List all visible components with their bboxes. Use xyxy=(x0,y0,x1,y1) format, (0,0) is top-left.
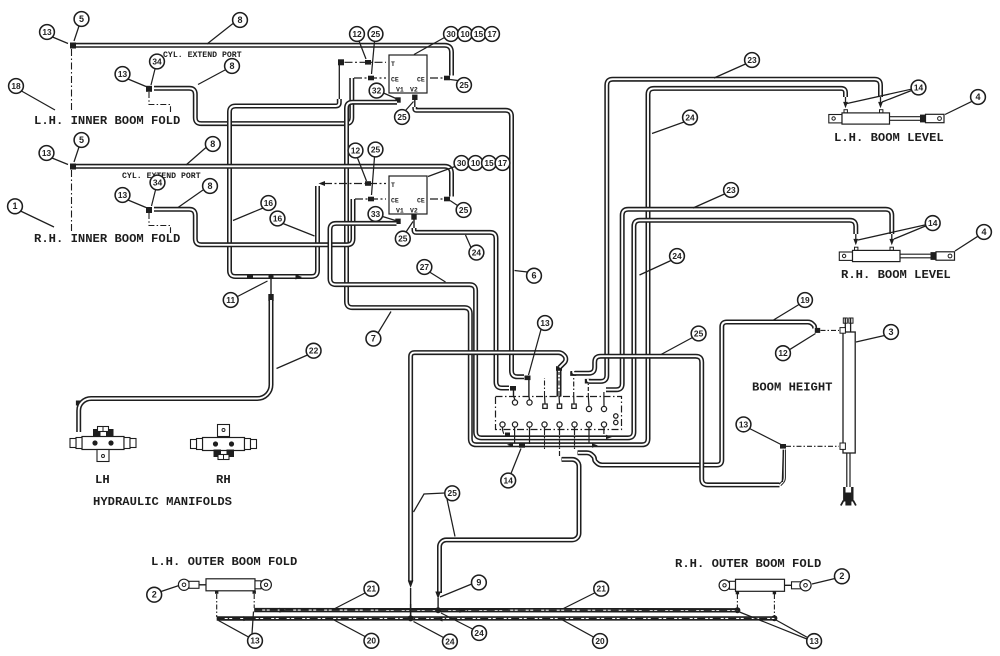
svg-text:25: 25 xyxy=(448,488,458,498)
stub line-6 to manifold port xyxy=(528,380,530,398)
fitting 11 below tee xyxy=(268,294,273,301)
stub port 514 bottom xyxy=(514,430,516,443)
hose 27 port lead xyxy=(855,234,857,241)
balloon 12 xyxy=(358,158,367,181)
connector port LH inner rod end xyxy=(70,43,76,49)
balloon 30 xyxy=(414,38,445,55)
dash-dot LH outer port 1 xyxy=(216,594,218,617)
svg-text:3: 3 xyxy=(888,327,893,337)
svg-text:CE: CE xyxy=(391,198,399,205)
fitting port 502 xyxy=(505,433,510,437)
balloon 24 xyxy=(414,622,444,638)
fitting on hose 22 at manifold xyxy=(76,401,82,406)
balloon 25 xyxy=(450,80,458,81)
svg-text:15: 15 xyxy=(484,158,494,168)
balloon 8 xyxy=(198,70,225,85)
balloon 8 xyxy=(178,190,203,208)
balloon 8 xyxy=(207,24,233,45)
svg-text:25: 25 xyxy=(371,29,381,39)
connector port RH inner rod end xyxy=(70,164,76,170)
balloon 3 xyxy=(856,336,885,343)
cylinder L.H. OUTER BOOM FOLD xyxy=(178,579,189,590)
balloon 13 xyxy=(776,620,808,638)
svg-text:R.H. INNER BOOM FOLD: R.H. INNER BOOM FOLD xyxy=(34,232,180,246)
dash-dot cyl extend port symbol LH xyxy=(149,92,171,112)
connector cyl extend port LH xyxy=(146,86,152,92)
balloon 7 xyxy=(378,312,391,334)
svg-text:34: 34 xyxy=(153,177,163,187)
cylinder BOOM HEIGHT xyxy=(843,332,855,453)
fitting 25 on LH valve V2 xyxy=(412,95,417,100)
balloon 21 xyxy=(564,593,595,609)
svg-text:24: 24 xyxy=(685,112,695,122)
balloon 19 xyxy=(774,305,800,321)
svg-text:CE: CE xyxy=(417,198,425,205)
svg-text:17: 17 xyxy=(498,158,508,168)
svg-text:4: 4 xyxy=(975,92,980,102)
cylinder R.H. BOOM LEVEL xyxy=(839,252,852,260)
balloon 15 xyxy=(471,27,486,42)
svg-text:24: 24 xyxy=(472,248,482,258)
fitting line-24 manifold entry xyxy=(510,386,516,391)
fitting 14 on lower line xyxy=(519,443,525,448)
svg-text:25: 25 xyxy=(398,234,408,244)
stub line-24 to manifold port xyxy=(513,390,515,398)
stub port 544 top dash xyxy=(544,378,546,396)
balloon 25 xyxy=(414,493,445,512)
svg-text:17: 17 xyxy=(487,29,497,39)
svg-text:RH: RH xyxy=(216,473,231,487)
svg-text:19: 19 xyxy=(800,295,810,305)
boom height rod clevis xyxy=(844,487,852,502)
hose 22 (tee to LH manifold) xyxy=(79,300,271,432)
stub port 559 bottom xyxy=(559,430,561,456)
V2 stub LH xyxy=(414,99,416,107)
balloon 2 xyxy=(161,586,179,592)
balloon 24 xyxy=(466,235,472,248)
svg-text:LH: LH xyxy=(95,473,110,487)
hose 26 (manifold to lower outer-fold line) xyxy=(557,369,562,401)
balloon 12 xyxy=(359,41,366,59)
svg-text:13: 13 xyxy=(250,636,260,646)
hose 23 LH port lead xyxy=(880,97,882,104)
fitting 13 line-6 manifold entry xyxy=(525,376,531,381)
svg-text:23: 23 xyxy=(747,55,757,65)
hose 25 (manifold to upper outer-fold line) xyxy=(440,459,580,593)
svg-text:21: 21 xyxy=(367,584,377,594)
svg-text:13: 13 xyxy=(540,318,550,328)
svg-text:4: 4 xyxy=(981,227,986,237)
arrowhead hose 26 lower xyxy=(408,581,414,589)
connector T-line LH valve xyxy=(338,59,344,65)
stub port 574 bottom xyxy=(574,430,576,450)
fitting 25 on RH valve CE right xyxy=(444,197,450,202)
balloon 23 xyxy=(714,64,746,78)
balloon 16 xyxy=(283,224,315,237)
svg-text:25: 25 xyxy=(694,328,704,338)
svg-text:V2: V2 xyxy=(410,87,418,94)
svg-text:20: 20 xyxy=(595,636,605,646)
port line CE left LH valve xyxy=(354,77,386,79)
hose 23 LH boom level outer xyxy=(588,79,881,381)
manifold port stubs (inside border) xyxy=(503,396,605,431)
balloon 4 xyxy=(955,236,978,251)
fitting on tee line left xyxy=(247,274,253,279)
svg-text:23: 23 xyxy=(726,185,736,195)
junction hose-26 to line 20 xyxy=(408,615,414,621)
svg-text:24: 24 xyxy=(445,636,455,646)
fitting 25 on LH valve CE right xyxy=(444,76,450,81)
hydraulic manifold LH xyxy=(82,437,124,450)
arrowhead RH level inner port xyxy=(853,239,858,245)
svg-text:7: 7 xyxy=(371,334,376,344)
balloon 13 xyxy=(52,158,68,165)
balloon 5 xyxy=(74,147,79,162)
balloon 30 xyxy=(428,167,455,177)
svg-text:8: 8 xyxy=(207,181,212,191)
balloon 25 xyxy=(450,201,458,206)
junction RH outer upper xyxy=(734,607,740,613)
arrowhead hose 25 lower xyxy=(435,592,441,600)
svg-text:32: 32 xyxy=(372,86,382,96)
hose 21 upper outer-fold line xyxy=(254,608,737,613)
svg-text:BOOM HEIGHT: BOOM HEIGHT xyxy=(752,381,832,395)
balloon 13 xyxy=(219,621,249,638)
LH outer cyl ports xyxy=(215,591,218,594)
hose 27 (RH valve V1 to manifold) xyxy=(330,220,856,438)
balloon 13 xyxy=(529,330,542,376)
balloon 33 xyxy=(383,217,396,221)
fitting 25 on RH valve V2 xyxy=(411,214,416,219)
svg-text:8: 8 xyxy=(237,15,242,25)
hose 8 LH top (boom fold to valve V-CE) xyxy=(76,45,452,75)
svg-text:16: 16 xyxy=(264,198,274,208)
hose 8 LH cyl extend (to valve CE left) xyxy=(154,78,352,124)
balloon 17 xyxy=(495,156,510,171)
svg-text:30: 30 xyxy=(457,158,467,168)
arrowhead stub 604b xyxy=(606,435,612,440)
central manifold block xyxy=(496,397,622,430)
fitting 25 on LH valve CE left xyxy=(368,76,374,81)
svg-text:2: 2 xyxy=(152,590,157,600)
RH outer cyl ports xyxy=(736,591,739,594)
svg-text:20: 20 xyxy=(367,636,377,646)
tee junction xyxy=(268,274,273,279)
svg-text:CE: CE xyxy=(391,77,399,84)
balloon 17 xyxy=(485,27,500,42)
dash-dot overlay hose 21 xyxy=(254,609,737,611)
fitting 33 on RH valve V1 xyxy=(395,219,400,224)
svg-text:25: 25 xyxy=(459,205,469,215)
tee drop line xyxy=(270,278,272,294)
fitting 25 on RH valve CE left xyxy=(368,197,374,202)
svg-text:L.H. OUTER BOOM FOLD: L.H. OUTER BOOM FOLD xyxy=(151,555,297,569)
balloon 34 xyxy=(151,69,155,85)
dash-dot RH outer port 2 xyxy=(773,594,775,617)
balloon 25 xyxy=(372,157,375,195)
svg-text:13: 13 xyxy=(118,190,128,200)
hose 23 RH port lead xyxy=(891,234,893,241)
svg-text:T: T xyxy=(391,182,395,189)
dash-dot RH outer port 1 xyxy=(736,594,738,609)
hose 19 (manifold to boom height cyl top) xyxy=(578,322,815,465)
arrowhead on hose 20 b xyxy=(436,617,443,622)
balloon 16 xyxy=(233,208,263,221)
arrowhead stub 514 xyxy=(507,443,513,448)
svg-text:13: 13 xyxy=(42,27,52,37)
svg-text:8: 8 xyxy=(210,139,215,149)
arrowhead stub 559 xyxy=(562,457,569,462)
balloon 15 xyxy=(482,156,497,171)
T-line drop LH xyxy=(338,65,340,100)
fitting line 19 end xyxy=(815,328,820,333)
svg-text:12: 12 xyxy=(778,348,788,358)
fitting 12 on RH valve T line xyxy=(365,181,371,186)
svg-text:22: 22 xyxy=(309,346,319,356)
stub port 604 bottom xyxy=(603,430,605,434)
balloon 13 xyxy=(53,37,69,44)
svg-text:10: 10 xyxy=(471,158,481,168)
arrowhead on hose 21 a xyxy=(280,608,287,613)
balloon 14 xyxy=(894,226,926,239)
svg-text:5: 5 xyxy=(79,14,84,24)
balloon 22 xyxy=(277,355,308,369)
fitting boom-height hose at manifold xyxy=(570,371,576,376)
svg-text:2: 2 xyxy=(839,571,844,581)
V2 stub RH xyxy=(413,219,415,228)
balloon 4 xyxy=(945,101,972,114)
svg-text:25: 25 xyxy=(371,144,381,154)
svg-text:16: 16 xyxy=(273,213,283,223)
svg-text:12: 12 xyxy=(352,29,362,39)
arrowhead stub 574 xyxy=(578,450,585,455)
svg-text:5: 5 xyxy=(79,135,84,145)
hose 26 main run xyxy=(411,353,566,581)
hose 25 riser xyxy=(780,450,784,485)
svg-text:13: 13 xyxy=(42,148,52,158)
svg-text:33: 33 xyxy=(371,209,381,219)
svg-text:24: 24 xyxy=(672,251,682,261)
balloon 5 xyxy=(74,26,79,41)
dash-dot to boom height cyl side port xyxy=(786,445,839,447)
port line CE left RH valve xyxy=(355,198,386,200)
balloon 13 xyxy=(128,79,146,87)
stub port 573.7 top xyxy=(573,377,575,397)
svg-text:R.H. BOOM LEVEL: R.H. BOOM LEVEL xyxy=(841,268,951,282)
svg-text:8: 8 xyxy=(229,61,234,71)
hose 16 LH tank line (T to tee) xyxy=(230,99,340,277)
dash-dot LH outer port 2 xyxy=(253,594,255,608)
svg-text:6: 6 xyxy=(531,271,536,281)
svg-text:CE: CE xyxy=(417,77,425,84)
balloon 23 xyxy=(693,194,725,208)
dash-dot cyl extend port symbol RH xyxy=(149,213,171,233)
riser to boom height lower fitting xyxy=(782,450,783,482)
solenoid valve RH (30/10/15/17) xyxy=(389,176,427,214)
svg-text:14: 14 xyxy=(928,218,938,228)
arrowhead stub 589 xyxy=(592,443,598,448)
balloon 34 xyxy=(152,190,156,206)
hose 24 (RH valve V2 to manifold) xyxy=(414,228,509,388)
balloon 14 xyxy=(511,449,521,474)
cylinder R.H. OUTER BOOM FOLD xyxy=(719,580,730,591)
port line T RH valve xyxy=(324,183,386,185)
hose 8 RH top (boom fold to valve V-CE) xyxy=(76,166,452,196)
svg-text:24: 24 xyxy=(474,628,484,638)
balloon 13 xyxy=(750,429,782,445)
balloon 32 xyxy=(384,93,397,99)
balloon 25 xyxy=(406,222,413,233)
svg-text:T: T xyxy=(391,61,395,68)
svg-text:V2: V2 xyxy=(410,208,418,215)
hose 7 port lead xyxy=(845,97,847,104)
balloon 25 xyxy=(406,102,414,111)
balloon 14 xyxy=(882,91,912,103)
svg-text:14: 14 xyxy=(504,475,514,485)
svg-text:13: 13 xyxy=(809,636,819,646)
fitting 12 on LH valve T line xyxy=(365,60,371,65)
svg-text:25: 25 xyxy=(459,80,469,90)
svg-text:30: 30 xyxy=(446,29,456,39)
fitting 13 boom height cyl line xyxy=(780,444,786,449)
svg-text:10: 10 xyxy=(460,29,470,39)
arrowhead tee line xyxy=(296,275,303,280)
balloon 11 xyxy=(238,281,268,297)
stub CE right LH valve xyxy=(430,77,443,79)
hose 25 tail to junction xyxy=(437,598,439,609)
arrowhead LH level inner port xyxy=(843,102,848,108)
hose 23 RH boom level outer xyxy=(606,209,892,389)
cylinder L.H. BOOM LEVEL xyxy=(829,115,842,123)
stub port 529 bottom xyxy=(529,430,531,444)
balloon 18 xyxy=(22,91,56,110)
svg-text:V1: V1 xyxy=(396,208,404,215)
hose 25 boom height supply xyxy=(573,356,779,485)
hose 6 (LH valve V2 to manifold) xyxy=(415,107,524,377)
fitting LH-level-outer at manifold xyxy=(585,379,591,384)
balloon 25 xyxy=(661,338,693,355)
stub port 502 bottom xyxy=(503,430,509,435)
dash-dot overlay hose 20 xyxy=(217,617,775,619)
arrowhead T line RH xyxy=(319,181,326,186)
hydraulic manifold RH xyxy=(203,438,245,451)
svg-text:34: 34 xyxy=(152,56,162,66)
svg-text:12: 12 xyxy=(351,145,361,155)
arrowhead stub 604 xyxy=(606,387,612,392)
solenoid valve LH (30/10/15/17) xyxy=(389,55,427,93)
arrowhead RH level outer port xyxy=(889,239,894,245)
balloon 8 xyxy=(186,148,206,166)
hose 26 tail over line 21 xyxy=(410,604,412,617)
stub port 559 top dash xyxy=(558,372,560,396)
port line T LH valve xyxy=(345,61,387,63)
svg-text:13: 13 xyxy=(118,69,128,79)
balloon 24 xyxy=(652,122,684,134)
svg-text:L.H. INNER BOOM FOLD: L.H. INNER BOOM FOLD xyxy=(34,114,180,128)
fitting on hose-26 at manifold xyxy=(556,366,562,371)
svg-text:13: 13 xyxy=(739,419,749,429)
connector cyl extend port RH xyxy=(146,207,152,213)
svg-text:15: 15 xyxy=(474,29,484,39)
junction RH outer lower xyxy=(771,615,777,621)
stub port 604 top xyxy=(603,392,605,397)
hose 7 (LH valve V1 to manifold) xyxy=(347,88,846,444)
balloon 24 xyxy=(640,261,672,276)
balloon 20 xyxy=(563,620,594,637)
balloon 9 xyxy=(440,584,472,597)
svg-text:HYDRAULIC MANIFOLDS: HYDRAULIC MANIFOLDS xyxy=(93,495,232,509)
hose 20 lower outer-fold line xyxy=(217,616,775,620)
hose 26 tail to junction xyxy=(410,588,412,617)
balloon 24 xyxy=(441,613,473,629)
balloon 20 xyxy=(334,620,365,637)
svg-text:21: 21 xyxy=(597,584,607,594)
arrowhead on hose 20 a xyxy=(244,616,251,621)
balloon 2 xyxy=(812,579,835,585)
balloon 1 xyxy=(21,211,55,227)
hose 8 RH cyl extend (to valve CE left) xyxy=(154,199,353,245)
stub port 588 top xyxy=(587,384,589,397)
balloon 10 xyxy=(458,27,473,42)
balloon 21 xyxy=(334,593,365,609)
dash-dot line19 to cyl port xyxy=(821,329,840,331)
balloon 12 xyxy=(790,334,816,350)
svg-text:14: 14 xyxy=(914,82,924,92)
junction hose-25 to line 21 xyxy=(435,607,441,613)
balloon 13 xyxy=(128,200,146,208)
dash-dot boom centerline RH xyxy=(71,170,73,232)
balloon 6 xyxy=(515,271,528,273)
svg-text:L.H. BOOM LEVEL: L.H. BOOM LEVEL xyxy=(834,131,944,145)
stub port 544 bottom dash xyxy=(544,430,546,451)
balloon 25 xyxy=(372,41,375,74)
balloon 27 xyxy=(430,272,446,282)
svg-text:1: 1 xyxy=(12,201,17,211)
stub port 589 bottom xyxy=(588,430,590,443)
svg-text:9: 9 xyxy=(476,577,481,587)
dash-dot boom centerline LH xyxy=(71,49,73,110)
svg-text:11: 11 xyxy=(226,295,235,305)
stub CE right RH valve xyxy=(430,198,443,200)
svg-text:27: 27 xyxy=(420,262,430,272)
arrowhead on hose 21 b xyxy=(460,608,467,613)
arrowhead LH level outer port xyxy=(878,102,883,108)
svg-text:V1: V1 xyxy=(396,87,404,94)
svg-text:25: 25 xyxy=(397,112,407,122)
fitting 32 on LH valve V1 xyxy=(395,97,400,102)
svg-text:R.H. OUTER BOOM FOLD: R.H. OUTER BOOM FOLD xyxy=(675,557,821,571)
svg-text:18: 18 xyxy=(11,81,21,91)
balloon 10 xyxy=(468,156,483,171)
